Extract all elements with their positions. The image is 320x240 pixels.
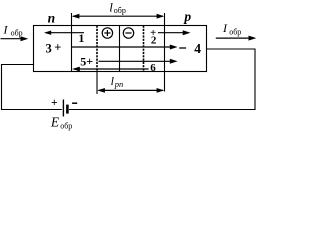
svg-text:3: 3: [46, 41, 52, 55]
svg-text:p: p: [183, 9, 191, 24]
depletion boundary left (dashed): [96, 26, 98, 72]
arrow 3-4 (long rightwards): [72, 46, 172, 48]
svg-text:2: 2: [151, 35, 157, 47]
arrow 6 (leftwards): [78, 68, 149, 70]
battery short plate (-): [66, 105, 69, 114]
svg-text:+: +: [51, 97, 58, 109]
acceptor ion circle (-): [123, 28, 133, 38]
battery long plate (+): [62, 100, 64, 117]
svg-text:+: +: [86, 54, 93, 68]
svg-text:обр: обр: [114, 6, 126, 15]
dimension l_obr: [73, 15, 163, 17]
arrow 1 (electron drift, leftwards): [50, 32, 85, 34]
depletion boundary right (dashed): [143, 26, 145, 72]
svg-text:обр: обр: [229, 27, 241, 36]
svg-text:E: E: [50, 114, 60, 129]
svg-text:обр: обр: [60, 121, 72, 130]
donor ion circle (+): [102, 28, 112, 38]
svg-text:4: 4: [194, 41, 201, 56]
svg-text:1: 1: [78, 31, 84, 45]
left contact boundary line (l_obr left tick): [71, 13, 73, 72]
svg-text:+: +: [54, 41, 61, 55]
dimension l_pn: [99, 89, 164, 91]
semiconductor body box: [34, 26, 207, 72]
svg-text:n: n: [48, 10, 56, 25]
battery - label: [72, 102, 77, 104]
wire left loop: [2, 65, 62, 110]
svg-text:6: 6: [150, 62, 156, 74]
svg-text:l: l: [109, 0, 113, 15]
svg-text:обр: обр: [11, 28, 23, 37]
label - 4: [179, 47, 186, 49]
svg-text:pn: pn: [114, 79, 124, 89]
right contact boundary line (shared tick): [164, 13, 166, 92]
wire right loop: [69, 49, 255, 110]
I_obr arrow right: [216, 37, 250, 39]
l_pn left tick below box: [96, 72, 98, 95]
I_obr arrow left: [1, 38, 22, 40]
metallurgical junction middle line: [119, 26, 121, 72]
arrow 2 (hole drift, rightwards): [158, 32, 185, 34]
arrow 5 (rightwards): [99, 60, 172, 62]
